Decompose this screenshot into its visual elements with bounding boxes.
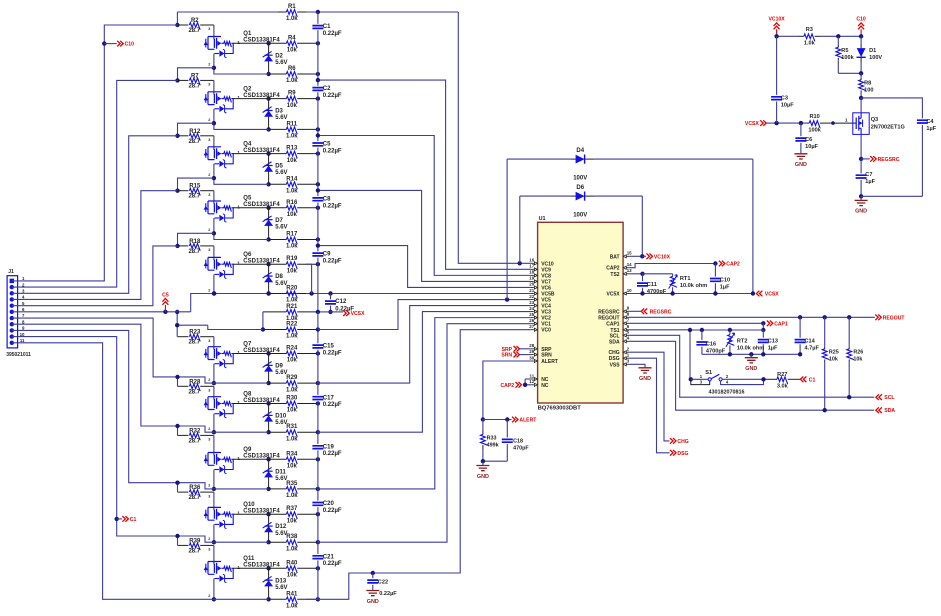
node drain	[266, 151, 270, 155]
wire	[213, 435, 215, 452]
transistor Q7 CSD13381F4	[208, 347, 221, 360]
node R10-Q3 gate	[831, 121, 835, 125]
svg-text:D13: D13	[275, 578, 287, 584]
pin 10 VC5X	[628, 293, 630, 295]
svg-text:Q9: Q9	[243, 447, 252, 453]
resistor R20 1.0k	[269, 293, 287, 295]
node R21-R22 junction	[261, 327, 265, 331]
node bottom rail	[728, 352, 732, 356]
svg-text:10k: 10k	[287, 358, 298, 364]
resistor R24 10k	[269, 353, 287, 355]
wire source	[213, 274, 215, 293]
svg-text:1.0k: 1.0k	[286, 604, 298, 610]
thermistor RT1 10.0k ohm	[672, 274, 674, 277]
svg-text:3: 3	[208, 138, 210, 142]
svg-text:23: 23	[529, 300, 534, 305]
svg-text:GND: GND	[367, 599, 379, 605]
resistor R29 1.0k	[269, 382, 287, 384]
node VC5X	[640, 291, 644, 295]
transistor Q10 CSD13381F4	[208, 507, 221, 520]
switch S1 430182070816	[689, 377, 693, 381]
capacitor C1 0.22uF	[312, 26, 323, 29]
pin 29 SRN	[531, 354, 533, 356]
svg-text:D9: D9	[275, 364, 283, 370]
svg-text:CHG: CHG	[677, 439, 688, 445]
wire D6 left to VC10	[519, 196, 521, 263]
svg-text:C10: C10	[125, 42, 135, 48]
wire boundary jog	[178, 377, 214, 383]
svg-text:C5: C5	[162, 292, 169, 298]
node zener-bottom	[266, 291, 270, 295]
resistor R19 10k	[269, 263, 287, 265]
svg-text:VCSX: VCSX	[765, 292, 779, 298]
svg-text:Q5: Q5	[243, 196, 252, 202]
svg-text:1: 1	[237, 95, 240, 100]
wire	[233, 207, 268, 209]
svg-text:21: 21	[529, 288, 534, 293]
resistor R8 100	[860, 73, 862, 77]
svg-text:SDA: SDA	[884, 408, 895, 414]
wire source-jog	[178, 178, 214, 191]
svg-text:2: 2	[208, 594, 210, 598]
svg-text:R28: R28	[189, 379, 201, 385]
node drain	[266, 566, 270, 570]
svg-text:VC10X: VC10X	[769, 17, 786, 23]
node source	[212, 597, 216, 601]
capacitor C22 0.22uF	[372, 573, 374, 578]
transistor Q11 CSD13381F4	[208, 562, 221, 575]
svg-text:SCL: SCL	[884, 395, 894, 401]
node zener-bottom	[266, 597, 270, 601]
svg-text:RT1: RT1	[680, 276, 691, 282]
wire VC5X gate row	[777, 122, 807, 124]
svg-text:R22: R22	[286, 322, 298, 328]
svg-text:28.7: 28.7	[188, 340, 200, 346]
svg-text:5.6V: 5.6V	[275, 115, 287, 121]
resistor R7 28.7	[178, 79, 189, 81]
svg-text:27: 27	[529, 324, 534, 329]
svg-text:29: 29	[529, 349, 534, 354]
svg-text:SRN: SRN	[541, 353, 552, 359]
wire J1 pin 9	[12, 330, 178, 482]
svg-text:ALERT: ALERT	[519, 418, 537, 424]
wire	[213, 191, 215, 201]
svg-text:1.0k: 1.0k	[286, 334, 298, 340]
svg-text:1: 1	[237, 511, 240, 516]
wire net VC9	[318, 80, 531, 269]
svg-text:100V: 100V	[573, 212, 587, 218]
op-amp U1 BQ7693003DBT	[538, 222, 624, 403]
node bus-drain	[316, 351, 320, 355]
capacitor C9 0.22uF	[312, 253, 323, 256]
resistor R3 1.0k	[798, 35, 804, 37]
node SCL-R26	[847, 395, 851, 399]
wire R22 to VC5 pin	[318, 300, 531, 330]
svg-text:1µF: 1µF	[768, 345, 778, 351]
node bottom rail	[749, 352, 753, 356]
svg-text:R40: R40	[286, 560, 298, 566]
capacitor C16 4700pF	[701, 330, 703, 340]
svg-text:3: 3	[208, 389, 210, 393]
ground C6	[794, 154, 807, 159]
node R22-bus	[316, 327, 320, 331]
svg-text:R27: R27	[777, 372, 787, 378]
resistor R11 1.0k	[269, 128, 287, 130]
node bottom rail	[761, 352, 765, 356]
pin 25 VC2	[531, 317, 533, 319]
node bus tap VC7	[316, 188, 320, 192]
svg-text:R13: R13	[286, 146, 298, 152]
flag VCSX right	[756, 291, 762, 297]
node zener-bottom	[266, 487, 270, 491]
resistor R28 28.7	[178, 385, 189, 387]
node source	[212, 176, 216, 180]
node drain	[266, 457, 270, 461]
svg-text:100V: 100V	[869, 55, 882, 61]
wire net VC10	[458, 12, 531, 263]
svg-text:28.7: 28.7	[188, 389, 200, 395]
capacitor C19 0.22uF	[312, 446, 323, 449]
svg-text:R19: R19	[286, 256, 298, 262]
wire R41 to VC0	[306, 330, 531, 600]
svg-text:C15: C15	[323, 344, 335, 350]
svg-text:C16: C16	[706, 341, 716, 347]
svg-text:499k: 499k	[487, 442, 499, 448]
svg-text:BQ7693003DBT: BQ7693003DBT	[538, 405, 582, 411]
wire	[213, 386, 215, 396]
svg-text:20: 20	[529, 282, 534, 287]
svg-text:C1: C1	[130, 517, 137, 523]
node bus-drain	[316, 151, 320, 155]
resistor R14 1.0k	[269, 183, 287, 185]
svg-text:R9: R9	[288, 91, 296, 97]
svg-text:2: 2	[208, 427, 210, 431]
pin 4 SDA	[628, 340, 630, 342]
wire source	[214, 109, 269, 130]
svg-text:3.0k: 3.0k	[777, 383, 789, 389]
resistor R37 10k	[269, 513, 287, 515]
node bus-drain	[316, 401, 320, 405]
resistor R12 28.7	[178, 135, 189, 137]
svg-text:VSS: VSS	[610, 362, 621, 368]
wire SCL	[630, 335, 874, 397]
resistor R17 1.0k	[269, 239, 287, 241]
svg-text:3: 3	[208, 339, 210, 343]
node ALERT junction	[481, 417, 485, 421]
wire	[213, 246, 215, 258]
svg-text:2: 2	[208, 228, 210, 232]
svg-text:C10: C10	[720, 277, 730, 283]
svg-text:2N7002ET1G: 2N7002ET1G	[871, 125, 905, 131]
wire	[214, 541, 269, 543]
node jog	[175, 375, 179, 379]
capacitor C10 1uF	[714, 264, 716, 277]
svg-text:R1: R1	[288, 4, 296, 10]
svg-text:1.0k: 1.0k	[286, 298, 298, 304]
svg-text:R24: R24	[286, 346, 298, 352]
wire	[214, 598, 269, 600]
wire	[214, 431, 269, 433]
node C18 top	[505, 417, 509, 421]
svg-text:C18: C18	[513, 438, 523, 444]
wire BAT	[630, 255, 642, 257]
svg-text:R20: R20	[286, 286, 298, 292]
resistor R39 28.7	[178, 544, 189, 546]
svg-text:10k: 10k	[287, 48, 298, 54]
svg-text:SDA: SDA	[609, 339, 620, 345]
wire	[233, 403, 268, 405]
svg-text:17: 17	[529, 264, 534, 269]
svg-text:C5: C5	[323, 142, 331, 148]
zener diode D2 5.6V	[268, 43, 270, 74]
node pin6 inner	[175, 310, 179, 314]
wire	[233, 263, 268, 265]
svg-text:26: 26	[529, 318, 534, 323]
svg-text:D12: D12	[275, 524, 287, 530]
pin 5 SCL	[628, 334, 630, 336]
svg-text:NC: NC	[541, 383, 549, 389]
wire TS2	[630, 273, 643, 275]
svg-text:28.7: 28.7	[188, 495, 200, 501]
transistor Q8 CSD13381F4	[208, 397, 221, 410]
svg-text:R34: R34	[286, 451, 298, 457]
node zener-bottom	[266, 430, 270, 434]
capacitor C11 4700pF	[642, 274, 644, 281]
zener diode D10 5.6V	[268, 404, 270, 433]
transistor Q4 CSD13381F4	[208, 147, 221, 160]
node R5 top	[836, 34, 840, 38]
pin 1 DSG	[628, 357, 630, 359]
wire	[213, 337, 215, 347]
node BAT	[640, 254, 644, 258]
capacitor C14 4.7uF	[799, 317, 801, 337]
node source	[212, 66, 216, 70]
svg-text:REGOUT: REGOUT	[883, 315, 906, 321]
svg-text:CAP2: CAP2	[501, 383, 515, 389]
svg-text:C1: C1	[809, 377, 816, 383]
svg-text:2: 2	[208, 173, 210, 177]
flag VCSX	[343, 310, 349, 316]
wire R21 left drop	[262, 312, 264, 330]
node bus-drain	[316, 457, 320, 461]
svg-text:S1: S1	[705, 370, 712, 376]
node source	[212, 291, 216, 295]
wire source-jog	[178, 68, 214, 81]
node source	[212, 231, 216, 235]
capacitor C4 1uF	[917, 120, 928, 123]
wire R2 left + rail stub	[104, 24, 177, 26]
svg-text:10k: 10k	[287, 212, 298, 218]
ground VSS	[630, 364, 645, 368]
wire Q3 drain	[860, 98, 862, 113]
wire TS1 to S1	[689, 330, 691, 379]
wire D4 right to VC5X	[752, 159, 754, 293]
node bus-bottom	[316, 597, 320, 601]
wire net VC8	[318, 136, 531, 276]
svg-text:TS2: TS2	[610, 272, 619, 278]
node feed junction	[175, 244, 179, 248]
svg-text:REGSRC: REGSRC	[650, 309, 672, 315]
capacitor C15 0.22uF	[312, 345, 323, 348]
wire J1 pin 5	[12, 246, 178, 306]
flag REGSRC	[630, 310, 641, 312]
node inner junction	[175, 323, 179, 327]
svg-text:1.0k: 1.0k	[286, 189, 298, 195]
svg-text:GND: GND	[795, 162, 807, 168]
svg-text:R18: R18	[189, 239, 201, 245]
resistor R26 10k	[848, 317, 850, 347]
resistor R22 1.0k	[208, 325, 263, 329]
svg-text:2: 2	[208, 484, 210, 488]
svg-text:10k: 10k	[287, 103, 298, 109]
svg-text:0.22µF: 0.22µF	[323, 508, 342, 514]
wire bottom rail	[702, 353, 800, 355]
node R19 drop on R20 row	[309, 291, 313, 295]
wire	[233, 98, 268, 100]
svg-text:10k: 10k	[287, 408, 298, 414]
wire CAP1 down	[762, 323, 764, 330]
node CAP1	[761, 321, 765, 325]
wire source	[213, 364, 215, 383]
node R3-VC10X	[774, 34, 778, 38]
flag VC10X top	[776, 29, 778, 36]
svg-text:R32: R32	[189, 428, 201, 434]
transistor Q1 CSD13381F4	[208, 37, 221, 50]
capacitor C12 0.22uF	[330, 294, 332, 300]
wire CAP2	[630, 264, 716, 268]
node bus-drain	[316, 262, 320, 266]
node drain	[266, 401, 270, 405]
svg-text:30: 30	[529, 355, 534, 360]
flag CHG	[670, 438, 676, 444]
svg-text:16: 16	[529, 258, 534, 263]
wire net VC2	[318, 318, 531, 489]
svg-text:0.22µF: 0.22µF	[323, 451, 342, 457]
svg-text:R38: R38	[286, 534, 298, 540]
svg-text:3: 3	[208, 494, 210, 498]
node RT2 top	[728, 328, 732, 332]
node jog	[175, 424, 179, 428]
svg-text:1µF: 1µF	[865, 179, 875, 185]
pin 30 ALERT	[531, 360, 533, 362]
wire net VC7	[318, 190, 531, 281]
svg-text:10: 10	[627, 288, 632, 293]
node drain	[266, 96, 270, 100]
node TS1 rail corner	[688, 328, 692, 332]
pin 17 VC9	[531, 268, 533, 270]
pin 3 VSS	[628, 363, 630, 365]
node TS2	[640, 272, 644, 276]
wire	[233, 42, 268, 44]
wire J1 pin 10	[12, 337, 178, 536]
svg-text:U1: U1	[539, 216, 546, 222]
node zener-bottom	[266, 182, 270, 186]
svg-text:R14: R14	[286, 176, 298, 182]
node source	[212, 487, 216, 491]
pin 12 NC	[531, 384, 533, 386]
svg-text:C21: C21	[323, 554, 335, 560]
node drain	[266, 351, 270, 355]
svg-text:D5: D5	[275, 164, 283, 170]
wire	[213, 136, 215, 147]
svg-text:18: 18	[529, 270, 534, 275]
svg-text:0.22µF: 0.22µF	[323, 148, 342, 154]
svg-text:D2: D2	[275, 53, 283, 59]
resistor R23 28.7	[178, 336, 189, 338]
node zener-bottom	[266, 237, 270, 241]
node bus-drain	[316, 206, 320, 210]
flag C1 on pin10	[115, 517, 119, 521]
svg-text:SRN: SRN	[501, 353, 512, 359]
zener diode D9 5.6V	[268, 354, 270, 384]
node bus-drain	[316, 566, 320, 570]
svg-text:28.7: 28.7	[188, 28, 200, 34]
node feed junction	[175, 78, 179, 82]
wire	[233, 567, 268, 569]
svg-text:D1: D1	[869, 48, 876, 54]
ground	[482, 461, 484, 465]
svg-text:1.0k: 1.0k	[286, 546, 298, 552]
capacitor C21 0.22uF	[312, 556, 323, 559]
node source	[212, 430, 216, 434]
node jog	[175, 534, 179, 538]
svg-text:C4: C4	[926, 119, 934, 125]
wire source	[214, 54, 269, 75]
svg-text:100V: 100V	[573, 175, 587, 181]
capacitor C2 0.22uF	[312, 88, 323, 91]
resistor R35 1.0k	[269, 488, 287, 490]
node C12 bottom	[328, 310, 332, 314]
flag CAP1	[767, 321, 773, 327]
wire source-jog	[178, 123, 214, 136]
node C16 top	[700, 328, 704, 332]
svg-text:25: 25	[529, 312, 534, 317]
svg-text:R30: R30	[286, 396, 298, 402]
svg-text:19: 19	[529, 276, 534, 281]
svg-text:R36: R36	[189, 485, 201, 491]
wire top rail	[777, 35, 798, 37]
svg-text:10k: 10k	[287, 268, 298, 274]
zener diode D3 5.6V	[268, 99, 270, 130]
node bus-bottom	[316, 182, 320, 186]
diode D1 100V	[860, 36, 862, 44]
svg-text:C11: C11	[647, 282, 657, 288]
transistor Q9 CSD13381F4	[208, 453, 221, 466]
wire	[213, 545, 215, 561]
node bus-bottom	[316, 540, 320, 544]
flag VCSX top-right	[760, 120, 766, 126]
svg-text:15: 15	[627, 251, 632, 256]
svg-text:Q1: Q1	[243, 31, 252, 37]
wire	[214, 293, 269, 295]
wire boundary jog	[178, 426, 214, 432]
node GND junction	[481, 459, 485, 463]
svg-text:5.6V: 5.6V	[275, 170, 287, 176]
pin 24 VC3	[531, 311, 533, 313]
transistor Q5 CSD13381F4	[208, 201, 221, 214]
node zener-bottom	[266, 127, 270, 131]
svg-text:R8: R8	[864, 81, 871, 87]
wire net VC3	[318, 312, 531, 433]
svg-text:430182070816: 430182070816	[709, 389, 745, 395]
flag SRP	[514, 346, 520, 352]
flag SCL	[876, 394, 882, 400]
thermistor RT2 10.0k ohm	[729, 330, 731, 335]
pin 16 VC10	[531, 262, 533, 264]
svg-text:Q11: Q11	[243, 556, 255, 562]
resistor R9 10k	[269, 98, 287, 100]
svg-text:2: 2	[208, 288, 210, 292]
